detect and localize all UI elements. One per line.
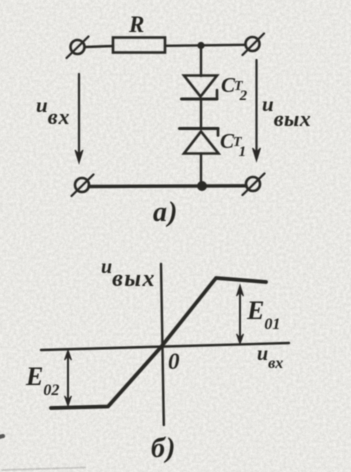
transfer curve bbox=[51, 278, 266, 408]
dimension arrow E01 bbox=[237, 285, 244, 344]
bottom rail wire bbox=[89, 184, 246, 188]
dimension arrow E02 bbox=[65, 350, 72, 406]
terminal bottom-left bbox=[72, 175, 94, 197]
svg-text:а): а) bbox=[153, 197, 178, 228]
faint bottom rule bbox=[2, 468, 85, 471]
node top junction bbox=[197, 42, 204, 49]
x-axis u_vx bbox=[41, 343, 289, 350]
speck left edge bbox=[0, 436, 3, 437]
resistor R bbox=[113, 38, 165, 53]
node bottom junction bbox=[197, 181, 207, 191]
arrow u_vx bbox=[75, 74, 83, 163]
wire CT1 to bottom rail bbox=[200, 154, 202, 186]
wire junction to CT2 bbox=[200, 46, 202, 77]
svg-text:б): б) bbox=[151, 433, 176, 464]
zener diode CT1 bbox=[180, 129, 219, 154]
svg-text:R: R bbox=[128, 12, 144, 37]
terminal top-left bbox=[67, 37, 89, 59]
wire CT2 to CT1 bbox=[200, 99, 202, 128]
wire input top bbox=[85, 46, 113, 47]
zener diode CT2 bbox=[182, 76, 218, 100]
terminal bottom-right bbox=[243, 174, 265, 196]
svg-text:0: 0 bbox=[168, 349, 180, 374]
arrow u_vyx bbox=[253, 60, 261, 161]
terminal top-right bbox=[243, 34, 265, 56]
wire resistor to top-right terminal bbox=[165, 45, 246, 46]
y-axis u_vyx bbox=[161, 264, 164, 425]
